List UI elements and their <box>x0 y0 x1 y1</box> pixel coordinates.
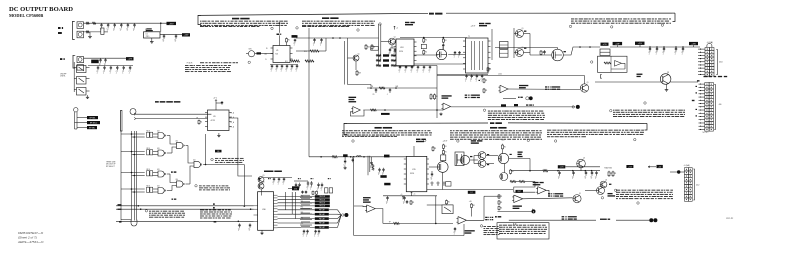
capacitor C54 <box>295 183 297 185</box>
resistor R34 <box>442 144 444 145</box>
svg-text:U13: U13 <box>157 131 160 133</box>
capacitor C1 <box>101 23 103 25</box>
connector J11 bracket <box>714 85 715 130</box>
svg-text:CNTRL: CNTRL <box>60 76 66 78</box>
wire U18 feedback <box>514 182 536 193</box>
capacitor C61 <box>573 171 575 173</box>
label marker A line <box>518 97 520 98</box>
svg-text:+36V: +36V <box>169 23 174 25</box>
transistor Q2 <box>353 55 359 61</box>
net label L4 <box>613 42 623 45</box>
op-amp U23 <box>458 217 467 225</box>
capacitor C86 <box>481 75 483 76</box>
ground opto <box>87 94 89 97</box>
marker double dot <box>649 218 653 222</box>
svg-text:.1: .1 <box>285 71 286 73</box>
resistor R29 <box>540 50 542 51</box>
resistor R38 <box>510 181 516 183</box>
note circle mid <box>644 102 646 104</box>
svg-text:Q1: Q1 <box>583 158 585 160</box>
svg-text:4C28: 4C28 <box>211 120 215 122</box>
svg-text:+20 V: +20 V <box>471 25 477 27</box>
capacitor C20 <box>291 65 293 66</box>
net label +5 SENSE <box>558 165 566 168</box>
svg-text:AEPS—47531—O: AEPS—47531—O <box>17 240 44 244</box>
capacitor C71 <box>454 227 456 229</box>
svg-text:.1: .1 <box>465 80 466 82</box>
svg-text:+20 V: +20 V <box>443 140 449 142</box>
opto U22 <box>442 205 453 214</box>
net label +20 C <box>657 165 663 168</box>
capacitor C14 <box>123 66 125 68</box>
svg-text:Q1: Q1 <box>263 175 265 177</box>
svg-text:R2 1K: R2 1K <box>147 169 151 171</box>
capacitor C19 <box>286 65 288 66</box>
shunt block U7 <box>600 49 610 56</box>
svg-text:R1: R1 <box>445 40 447 42</box>
svg-text:.1: .1 <box>320 45 321 47</box>
note text leds <box>465 95 467 96</box>
capacitor C2 <box>107 23 109 25</box>
svg-text:R1: R1 <box>436 96 438 98</box>
wire to cap bank <box>104 31 108 33</box>
transistor Q5 <box>516 30 524 38</box>
wire bottom cluster <box>294 180 308 182</box>
net label cs <box>215 150 222 153</box>
svg-text:Q1: Q1 <box>358 53 360 55</box>
wire gates to U14B <box>167 173 170 175</box>
svg-text:L 201: L 201 <box>498 74 502 76</box>
label voltage regulator VR1 <box>147 28 152 29</box>
capacitor C76 <box>302 191 304 192</box>
resistor R19 <box>356 70 358 71</box>
resistor R8 <box>286 38 288 39</box>
svg-text:U14: U14 <box>176 179 179 181</box>
wire divider rail A <box>367 87 437 89</box>
svg-text:.1: .1 <box>428 71 429 73</box>
resistor R10 <box>310 50 319 52</box>
capacitor C7 <box>163 34 165 36</box>
driver mosfet U17 <box>460 155 469 164</box>
svg-text:.1: .1 <box>430 179 431 181</box>
capacitor C65 <box>249 223 251 225</box>
svg-text:PB2: PB2 <box>301 207 304 209</box>
net label U5 right <box>292 35 297 37</box>
wire diag down <box>261 189 263 195</box>
label overcurrent detector <box>513 205 522 206</box>
capacitor C57 <box>311 181 313 183</box>
fanout group B labels <box>315 209 329 212</box>
resistor grid row 3 <box>376 65 381 67</box>
svg-text:+20V: +20V <box>691 43 696 45</box>
wire cl to divider <box>348 84 372 86</box>
optocoupler U2 <box>77 66 87 73</box>
transistor Q17B <box>597 187 605 195</box>
capacitor C56 <box>307 181 309 183</box>
supply +5V arrow <box>215 100 217 104</box>
resistor R24 <box>434 94 436 95</box>
mosfet Q7 output switch <box>552 49 564 61</box>
op-amp U19 <box>514 195 523 203</box>
opto box U16 <box>441 155 446 161</box>
label Q5 part <box>524 31 526 32</box>
wire fb tap <box>354 205 367 208</box>
wire cluster verticals <box>367 156 369 175</box>
svg-text:R1: R1 <box>485 90 487 92</box>
net label bus B <box>343 154 348 156</box>
capacitor C53 <box>383 168 385 170</box>
svg-text:Q1: Q1 <box>605 180 607 182</box>
capacitor C31 <box>649 47 651 49</box>
capacitor C48 <box>278 178 280 179</box>
svg-text:.1: .1 <box>126 30 127 32</box>
resistor R33 <box>329 188 332 193</box>
label field coil <box>704 76 708 77</box>
capacitor C43 <box>423 66 425 67</box>
supply rail B <box>383 195 437 197</box>
capacitor C60 <box>559 171 561 173</box>
ground input <box>89 32 91 35</box>
svg-text:.1: .1 <box>100 30 101 32</box>
wire feedback column B <box>353 158 355 236</box>
note title current limiting B <box>490 127 497 129</box>
net label +CG entry <box>601 43 609 46</box>
capacitor C33 <box>663 47 665 49</box>
capacitor C4 <box>120 23 122 25</box>
ground U9 <box>218 133 220 134</box>
svg-text:.1: .1 <box>410 71 411 73</box>
net label +5V SUPPLY <box>490 122 494 124</box>
note text leds 2 <box>545 86 547 87</box>
note paragraph output current <box>571 18 574 21</box>
label CLK2 <box>214 221 217 222</box>
wire bottom stage rail <box>414 63 466 65</box>
resistor network RN1 <box>147 132 150 137</box>
net label DIAG <box>292 186 299 190</box>
svg-text:.1: .1 <box>404 71 405 73</box>
cap bank U5 <box>270 64 298 66</box>
net label +20V SUPPLY <box>429 13 434 15</box>
wire decoder bus drop <box>121 111 123 131</box>
net label +15V <box>182 33 190 36</box>
resistor R56 <box>316 190 318 193</box>
wire feedback up <box>463 224 465 236</box>
inductor L1 <box>101 28 104 34</box>
microprocessor U30 <box>258 192 274 231</box>
wire darlington rail <box>595 81 661 83</box>
resistor R57 <box>198 120 200 121</box>
capacitor C27 <box>454 51 456 52</box>
capacitor C50 <box>344 157 346 160</box>
svg-text:R1: R1 <box>288 40 290 42</box>
net label 240 <box>257 52 262 54</box>
net label U11 line b <box>514 104 518 106</box>
svg-text:DECODE OF: DECODE OF <box>106 164 116 166</box>
svg-text:.1: .1 <box>595 178 596 180</box>
capacitor C32 <box>656 47 658 49</box>
wire cap bank rail <box>103 22 141 24</box>
svg-text:R1: R1 <box>434 148 436 150</box>
capacitor C64 <box>239 223 241 225</box>
optocoupler U3 <box>77 77 87 85</box>
svg-text:R1: R1 <box>200 121 202 123</box>
capacitor C66 <box>303 230 305 231</box>
svg-text:.1: .1 <box>120 30 121 32</box>
capacitor C10B <box>97 66 99 68</box>
resistor grid row 2 <box>376 60 381 62</box>
wire bus line 3 <box>116 220 254 222</box>
net label L2RET <box>468 191 476 194</box>
resistor R60 <box>487 67 489 68</box>
fanout group A labels <box>315 195 330 198</box>
nand gate U13A <box>158 133 164 139</box>
capacitor C63B <box>596 171 598 173</box>
capacitor C13 <box>116 66 118 68</box>
svg-text:.1: .1 <box>558 178 559 180</box>
svg-text:U13: U13 <box>157 169 160 171</box>
supply arrow B <box>411 192 413 196</box>
svg-text:.1: .1 <box>317 236 318 238</box>
label pulse width modulator B <box>416 139 420 140</box>
capacitor C80 <box>387 196 389 198</box>
resistor R41 <box>498 200 500 201</box>
resistor R40 <box>498 194 500 195</box>
capacitor C5 <box>127 23 129 25</box>
resistor R50 <box>608 171 610 172</box>
wire Q4 to T1 <box>448 54 465 56</box>
svg-text:.1: .1 <box>416 71 417 73</box>
svg-text:.1: .1 <box>277 184 278 186</box>
resistor R13 <box>365 44 367 45</box>
wire bus line 2 <box>116 208 254 210</box>
bias box <box>446 182 452 186</box>
ground regulator <box>151 38 153 40</box>
surge box U8 <box>598 56 628 72</box>
svg-text:TP: TP <box>389 221 391 223</box>
resistor R48 <box>471 203 473 204</box>
svg-text:3524: 3524 <box>410 173 414 175</box>
svg-text:.1: .1 <box>174 41 175 43</box>
label SP BUS 2 <box>172 199 174 200</box>
svg-text:+5: +5 <box>396 28 398 30</box>
wire 36V rail <box>84 22 104 24</box>
supply +5 B <box>402 196 404 200</box>
net label RP2 <box>87 121 100 124</box>
wire opto column <box>73 62 75 92</box>
wire to net label <box>141 22 167 24</box>
wire vertical pair B <box>343 41 345 65</box>
wire driver out <box>524 33 531 35</box>
mosfet Q4 <box>436 49 446 59</box>
resistor network RN2 <box>147 150 150 155</box>
wire pwm bottom <box>427 189 513 191</box>
ferrite bead FB4 <box>77 65 84 71</box>
marker bundle <box>342 214 344 216</box>
wire driver B vertical <box>456 154 458 166</box>
note paragraph voltage regulator <box>200 20 202 23</box>
label current sense <box>637 74 643 75</box>
capacitor C85 <box>476 75 478 76</box>
capacitor C22 <box>314 38 316 40</box>
wire decoder line 2 <box>136 118 208 120</box>
note paragraph line supply B <box>547 129 551 132</box>
capacitor C58 <box>318 183 320 185</box>
resistor R55 <box>312 190 314 193</box>
pwm IC U15 <box>406 156 427 191</box>
svg-text:.1: .1 <box>99 65 100 67</box>
resistor R71 <box>510 169 512 170</box>
resistor R31 <box>372 164 374 170</box>
capacitor C21 <box>296 65 298 66</box>
wire Q16 down <box>504 164 506 173</box>
op-amp U11 <box>443 103 451 110</box>
svg-text:.1: .1 <box>298 190 299 192</box>
note paragraph current limiting <box>302 20 306 23</box>
svg-text:7815: 7815 <box>146 36 150 38</box>
capacitor C68 <box>315 230 317 231</box>
label amp <box>609 184 611 185</box>
note circle line supply <box>634 138 636 140</box>
svg-text:R1: R1 <box>425 52 427 54</box>
svg-text:P2 (E,F): P2 (E,F) <box>187 63 193 65</box>
wire 12V rail <box>84 57 127 59</box>
svg-text:.1: .1 <box>295 71 296 73</box>
note text diag <box>199 184 202 187</box>
note text leds 3 <box>548 193 550 194</box>
wire Q13 bottom <box>442 172 444 189</box>
resistor R45 <box>410 200 412 201</box>
capacitor C39 <box>399 66 401 67</box>
capacitor C62 <box>585 171 587 173</box>
wire current limit rail <box>296 37 344 39</box>
resistor R70 <box>432 146 434 147</box>
note bracket bottom rail <box>344 123 347 134</box>
left stub wires <box>300 197 312 199</box>
svg-text:.1: .1 <box>109 72 110 74</box>
svg-text:Q1: Q1 <box>587 82 589 84</box>
note circle r2 <box>637 202 639 204</box>
capacitor C52 <box>379 168 381 170</box>
ground U30 <box>261 230 263 231</box>
transistor Q17 <box>573 195 581 203</box>
svg-text:.1: .1 <box>386 203 387 205</box>
note circle diag <box>195 185 197 187</box>
gate bus lines <box>120 131 122 221</box>
capacitor C37 <box>375 88 377 90</box>
svg-text:R10: R10 <box>304 51 307 53</box>
svg-text:R1: R1 <box>445 151 447 153</box>
svg-text:R1: R1 <box>512 171 514 173</box>
wire +20 up <box>279 23 281 33</box>
svg-text:L2: L2 <box>471 192 473 194</box>
svg-text:.1: .1 <box>248 230 249 232</box>
svg-text:CL: CL <box>265 59 267 61</box>
capacitor C34 <box>675 47 677 49</box>
label chgr bat ret <box>600 219 607 220</box>
nand gate U14C <box>194 161 200 167</box>
label RTN <box>697 80 700 81</box>
capacitor C22B <box>294 39 296 40</box>
capacitor C3 <box>114 23 116 25</box>
note bracket top rail <box>198 15 201 24</box>
net label fb1 <box>380 175 386 178</box>
svg-text:.1: .1 <box>481 80 482 82</box>
svg-text:R1: R1 <box>489 69 491 71</box>
svg-text:.1: .1 <box>103 72 104 74</box>
capacitor C24 <box>389 48 391 50</box>
svg-text:.1: .1 <box>378 174 379 176</box>
capacitor C17 <box>276 65 278 66</box>
label switch driver <box>479 23 484 24</box>
note title voltage regulator B <box>375 127 382 129</box>
svg-text:.1: .1 <box>674 54 675 56</box>
transistor Q16 <box>498 153 508 163</box>
svg-text:R19: R19 <box>358 72 361 74</box>
snubber box <box>371 47 379 51</box>
transistor Q19 <box>577 159 586 168</box>
wire feedback bottom <box>354 235 464 237</box>
svg-text:Q1: Q1 <box>522 47 524 49</box>
svg-text:R40: R40 <box>371 86 374 88</box>
wire U14A to U14C <box>186 145 189 147</box>
note circle r3 <box>601 197 603 199</box>
svg-text:U14: U14 <box>193 159 196 161</box>
svg-text:NOTE 5: NOTE 5 <box>703 132 709 134</box>
svg-text:.1: .1 <box>162 41 163 43</box>
label overvoltage detector <box>519 85 528 86</box>
svg-text:.1: .1 <box>275 71 276 73</box>
label chip select address decoder <box>155 101 159 102</box>
label Q7 part <box>564 51 566 52</box>
wire Q1 to U5 <box>258 53 273 55</box>
note box bottom right <box>497 223 549 239</box>
net label +5 5A <box>495 216 497 217</box>
capacitor C51B <box>371 157 373 161</box>
net label cl <box>292 35 298 37</box>
note text mid bus <box>200 209 205 212</box>
net label U11 line a <box>501 104 506 106</box>
svg-text:+20: +20 <box>502 140 505 142</box>
wire +20 bus drop <box>495 47 558 49</box>
svg-text:R1: R1 <box>504 146 506 148</box>
svg-text:Q1: Q1 <box>579 193 581 195</box>
wire marker line <box>498 210 532 212</box>
wire tall driver verticals <box>491 29 493 60</box>
resistor R3 <box>86 31 89 33</box>
label output voltage sensor <box>518 151 523 152</box>
svg-text:Q1: Q1 <box>263 181 265 183</box>
svg-text:.1: .1 <box>290 71 291 73</box>
svg-text:R1: R1 <box>500 202 502 204</box>
svg-text:R1: R1 <box>500 207 502 209</box>
note paragraph current limiting B <box>450 129 452 132</box>
timing box <box>421 44 426 48</box>
svg-text:Q1: Q1 <box>522 28 524 30</box>
wire rtn rail <box>84 31 101 33</box>
svg-text:U14: U14 <box>176 140 179 142</box>
note paragraph voltage regulator B <box>342 129 345 132</box>
marker A2 <box>532 209 536 213</box>
capacitor C42 <box>417 66 419 67</box>
capacitor C44 <box>429 66 431 67</box>
nand gate U13B <box>158 150 164 156</box>
svg-text:R1: R1 <box>445 146 447 148</box>
svg-text:.1: .1 <box>133 30 134 32</box>
op-amp U10 <box>353 107 361 114</box>
svg-text:.1: .1 <box>280 71 281 73</box>
marker A <box>526 97 529 100</box>
wire U19 out <box>523 198 573 199</box>
